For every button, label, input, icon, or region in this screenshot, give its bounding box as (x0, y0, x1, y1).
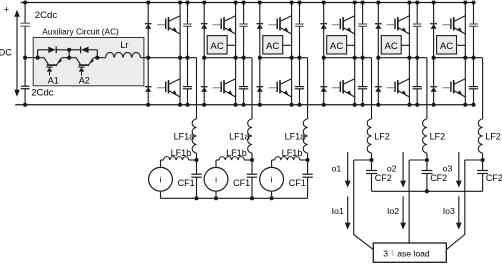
node neutral junctions (left group) (194, 196, 198, 200)
capacitor CF1 phase2 (251, 160, 253, 174)
node leg5 bottom rail junctions (376, 103, 380, 107)
wire LF2 to output node leg6 (482, 153, 484, 160)
node neutral junction CF2 phase2 (425, 189, 429, 193)
wire leg6 diode branch (433, 3, 435, 105)
inductor LF1b leg3 (272, 159, 275, 161)
diode leg2 top (antiparallel) (201, 23, 208, 25)
wire leg5 diode branch (377, 3, 379, 105)
wire filter neutral (left group) (161, 197, 308, 199)
IGBT A2 body bar (79, 64, 90, 66)
svg-text:Io3: Io3 (443, 206, 455, 216)
wire to current source leg2 (215, 160, 217, 168)
node leg6 phase junctions (432, 56, 436, 60)
wire aux clamp riser right (96, 50, 98, 58)
node leg1 top rail junctions (146, 0, 150, 4)
AC box leg6 (auxiliary circuit) (437, 36, 457, 54)
node aux clamp mid (67, 48, 71, 52)
wire leg2 IGBT branch (235, 3, 237, 105)
node output o1 (369, 158, 373, 162)
wire output stub o1 (354, 159, 372, 161)
svg-text:3: 3 (383, 248, 388, 258)
node filter leg2 (250, 158, 254, 162)
capacitor snubber leg1 bottom (183, 86, 192, 88)
inductor Lr (106, 52, 141, 57)
svg-text:Auxiliary Circuit (AC): Auxiliary Circuit (AC) (42, 26, 119, 36)
IGBT leg2 bottom (224, 79, 235, 85)
IGBT A2 emitter leg (89, 58, 94, 65)
wire aux clamp riser left (37, 50, 39, 58)
svg-text:Io2: Io2 (387, 206, 399, 216)
svg-text:+: + (4, 5, 9, 15)
wire AC box leg5 to phase (401, 44, 409, 46)
node aux right (95, 56, 99, 60)
wire to current source leg3 (271, 160, 273, 168)
IGBT leg5 top (398, 16, 409, 22)
wire leg4 output drop (371, 58, 373, 119)
capacitor 2Cdc (top) (20, 22, 30, 24)
IGBT leg1 bottom (169, 79, 180, 85)
IGBT leg6 bottom (454, 79, 465, 85)
wire leg1 IGBT branch (179, 3, 181, 105)
current source i phase1 (149, 167, 173, 191)
svg-text:VDC: VDC (0, 47, 12, 57)
capacitor snubber leg4 top (358, 23, 366, 25)
wire CF2 neutral (right group) (372, 190, 483, 192)
wire leg4 IGBT branch (354, 3, 356, 105)
wire DC+ top rail (21, 2, 474, 4)
node leg2 phase junctions (202, 56, 206, 60)
inductor LF2 leg6 (478, 119, 482, 153)
wire aux to Lr (94, 57, 106, 59)
capacitor CF2 phase3 (482, 160, 484, 171)
wire leg1 output drop (196, 58, 198, 119)
diode A2 (antiparallel) (78, 66, 84, 68)
wire aux clamp top left (38, 49, 49, 51)
wire leg3 diode branch (259, 3, 261, 105)
node aux branch left (36, 56, 40, 60)
inductor LF2 leg4 (367, 119, 371, 153)
IGBT leg2 top (224, 16, 235, 22)
wire output line o1 (353, 160, 355, 235)
IGBT leg4 top (343, 16, 354, 22)
current source i phase2 (204, 167, 228, 191)
svg-text:CF2: CF2 (430, 173, 447, 183)
wire output line o2 (408, 160, 410, 243)
node leg4 top rail junctions (322, 0, 326, 4)
wire leg4 phase segment (324, 57, 372, 59)
capacitor snubber leg6 top (469, 23, 477, 25)
capacitor snubber leg2 top (239, 23, 247, 25)
node leg1 phase junctions (146, 56, 150, 60)
svg-text:i: i (215, 174, 217, 184)
svg-text:o3: o3 (443, 164, 453, 174)
IGBT leg3 top (280, 16, 291, 22)
wire LF1a to filter node leg3 (307, 153, 309, 160)
capacitor snubber leg4 bottom (358, 86, 367, 88)
diode leg6 bottom (antiparallel) (430, 86, 437, 88)
wire current source to neutral leg2 (215, 191, 217, 198)
wire leg6 IGBT branch (464, 3, 466, 105)
diode aux clamp D1 (pointing right) (48, 47, 55, 53)
diode leg4 top (antiparallel) (320, 23, 327, 25)
wire aux clamp mid (56, 49, 81, 51)
wire LF1a to filter node leg1 (196, 153, 198, 160)
wire leg6 snubber branch (473, 3, 475, 24)
wire DC- bottom rail (15, 104, 474, 106)
diode leg1 bottom (antiparallel) (145, 86, 152, 88)
wire leg1 phase segment (148, 57, 196, 59)
svg-text:AC: AC (385, 41, 398, 52)
node filter leg3 (306, 158, 310, 162)
inductor LF1b leg2 (216, 159, 219, 161)
wire output line o3 (464, 160, 466, 235)
svg-text:Io1: Io1 (332, 206, 344, 216)
inductor LF1a leg2 (248, 119, 252, 153)
capacitor snubber leg5 top (413, 23, 421, 25)
wire AC box leg3 to phase (283, 44, 292, 46)
diode leg6 top (antiparallel) (430, 23, 437, 25)
AC box leg2 (auxiliary circuit) (207, 36, 227, 54)
capacitor 2Cdc (bottom) (21, 85, 30, 87)
IGBT leg4 bottom (343, 79, 354, 85)
node output o3 (481, 158, 485, 162)
capacitor CF2 phase1 (371, 160, 373, 171)
node leg3 top rail junctions (258, 0, 262, 4)
IGBT leg6 top (454, 16, 465, 22)
svg-text:LF1b: LF1b (226, 148, 247, 158)
svg-text:AC: AC (330, 41, 343, 52)
svg-text:2Cdc: 2Cdc (31, 88, 54, 99)
diode leg1 top (antiparallel) (145, 23, 152, 25)
node leg2 top rail junctions (202, 0, 206, 4)
diode leg5 bottom (antiparallel) (375, 86, 382, 88)
capacitor snubber leg6 bottom (469, 86, 478, 88)
capacitor CF2 phase2 (426, 160, 428, 171)
IGBT leg1 top (169, 16, 180, 22)
arrow Io1 (347, 196, 349, 223)
wire aux between switches (62, 57, 76, 59)
svg-text:AC: AC (210, 41, 223, 52)
inductor LF1a leg3 (303, 119, 307, 153)
inductor LF1a leg1 (192, 119, 196, 153)
diode leg4 bottom (antiparallel) (320, 86, 327, 88)
IGBT A1 emitter leg (57, 58, 62, 65)
node leg5 top rail junctions (376, 0, 380, 4)
wire leg5 IGBT branch (408, 3, 410, 105)
capacitor snubber leg2 bottom (239, 86, 248, 88)
node leg3 phase junctions (258, 56, 262, 60)
svg-text:CF1: CF1 (289, 178, 306, 188)
diode leg2 bottom (antiparallel) (201, 86, 208, 88)
IGBT leg3 bottom (280, 79, 291, 85)
svg-text:LF1b: LF1b (282, 148, 303, 158)
capacitor snubber leg1 top (183, 23, 191, 25)
diode leg3 bottom (antiparallel) (257, 86, 264, 88)
wire LF2 to output node leg4 (371, 153, 373, 160)
wire leg3 phase segment (260, 57, 308, 59)
svg-text:CF2: CF2 (486, 173, 502, 183)
AC box leg5 (auxiliary circuit) (381, 36, 401, 54)
node leg6 bottom rail junctions (432, 103, 436, 107)
current source i phase3 (260, 167, 284, 191)
arrow o2 (402, 152, 404, 182)
svg-text:Lr: Lr (120, 40, 128, 50)
svg-text:CF1: CF1 (178, 178, 195, 188)
wire Lr to leg 1 (141, 57, 149, 59)
node aux mid (67, 56, 71, 60)
node output o2 (425, 158, 429, 162)
wire leg5 snubber branch (416, 3, 418, 24)
node leg5 phase junctions (376, 56, 380, 60)
IGBT A1 body bar (47, 64, 58, 66)
AC box leg3 (auxiliary circuit) (263, 36, 283, 54)
svg-text:AC: AC (266, 41, 279, 52)
wire leg3 output drop (307, 58, 309, 119)
IGBT A1 collector leg (44, 58, 48, 65)
wire output stub o2 (409, 159, 427, 161)
wire leg2 phase segment (204, 57, 252, 59)
wire leg5 phase segment (378, 57, 427, 59)
wire LF1a to filter node leg2 (251, 153, 253, 160)
auxiliary circuit box (expanded AC of leg 1) (33, 38, 144, 86)
svg-text:LF2: LF2 (374, 131, 390, 141)
wire leg2 diode branch (203, 3, 205, 105)
wire aux clamp riser mid (68, 50, 70, 58)
node leg4 phase junctions (322, 56, 326, 60)
AC box leg4 (auxiliary circuit) (327, 36, 347, 54)
node leg4 bottom rail junctions (322, 103, 326, 107)
wire AC box leg6 to phase (457, 44, 466, 46)
svg-text:A1: A1 (48, 75, 59, 85)
wire current source to neutral leg3 (271, 191, 273, 198)
capacitor snubber leg5 bottom (413, 86, 422, 88)
wire leg6 output drop (482, 58, 484, 119)
node filter leg1 (194, 158, 198, 162)
wire leg6 phase segment (434, 57, 483, 59)
svg-text:o1: o1 (332, 164, 342, 174)
IGBT leg5 bottom (398, 79, 409, 85)
wire midpoint to aux box (25, 57, 33, 59)
wire AC box leg2 to phase (227, 44, 236, 46)
wire leg5 output drop (426, 58, 428, 119)
wire leg4 snubber branch (362, 3, 364, 24)
capacitor CF1 phase3 (307, 160, 309, 174)
svg-text:LF1a: LF1a (174, 131, 195, 141)
svg-text:2Cdc: 2Cdc (35, 10, 58, 21)
wire leg1 diode branch (147, 3, 149, 105)
svg-text:i: i (160, 174, 162, 184)
node bottom rail at bus (23, 103, 27, 107)
diode leg5 top (antiparallel) (375, 23, 382, 25)
wire leg4 diode branch (323, 3, 325, 105)
load box 3-phase (373, 243, 446, 262)
svg-text:AC: AC (440, 41, 453, 52)
svg-text:o2: o2 (387, 164, 397, 174)
wire LF2 to output node leg5 (426, 153, 428, 160)
wire leg1 snubber branch (187, 3, 189, 24)
svg-text:LF2: LF2 (485, 131, 501, 141)
wire output stub o3 (465, 159, 483, 161)
wire leg2 snubber branch (243, 3, 245, 24)
wire aux clamp top right (89, 49, 98, 51)
svg-text:CF2: CF2 (375, 173, 392, 183)
svg-text:A2: A2 (79, 75, 90, 85)
capacitor CF1 phase1 (196, 160, 198, 174)
VDC arrow (double headed) (16, 15, 18, 93)
arrow Io2 (402, 196, 404, 223)
inductor LF2 leg5 (423, 119, 427, 153)
node leg6 top rail junctions (432, 0, 436, 4)
wire leg2 output drop (251, 58, 253, 119)
node leg3 bottom rail junctions (258, 103, 262, 107)
arrow o1 (347, 152, 349, 182)
wire leg3 snubber branch (299, 3, 301, 24)
wire aux main (midpoint side) (33, 57, 44, 59)
svg-text:LF1a: LF1a (285, 131, 306, 141)
svg-text:LF2: LF2 (430, 131, 446, 141)
diode leg3 top (antiparallel) (257, 23, 264, 25)
svg-text:i: i (271, 174, 273, 184)
node top rail at bus (23, 0, 27, 4)
node DC midpoint (23, 56, 27, 60)
IGBT A2 collector leg (76, 58, 80, 65)
capacitor snubber leg3 bottom (295, 86, 304, 88)
diode aux clamp D2 (pointing left) (81, 47, 88, 53)
arrow o3 (458, 152, 460, 182)
capacitor snubber leg3 top (295, 23, 303, 25)
svg-text:LF1b: LF1b (171, 148, 192, 158)
wire current source to neutral leg1 (160, 191, 162, 198)
diode A1 (antiparallel) (46, 66, 52, 68)
svg-text:LF1a: LF1a (229, 131, 250, 141)
wire leg3 IGBT branch (291, 3, 293, 105)
svg-text:ase load: ase load (397, 248, 430, 258)
arrow Io3 (458, 196, 460, 223)
svg-text:CF1: CF1 (233, 178, 250, 188)
wire to current source leg1 (160, 160, 162, 168)
node leg2 bottom rail junctions (202, 103, 206, 107)
DC bus wire (left vertical) (24, 3, 26, 24)
wire AC box leg4 to phase (347, 44, 355, 46)
node leg1 bottom rail junctions (146, 103, 150, 107)
inductor LF1b leg1 (161, 159, 164, 161)
